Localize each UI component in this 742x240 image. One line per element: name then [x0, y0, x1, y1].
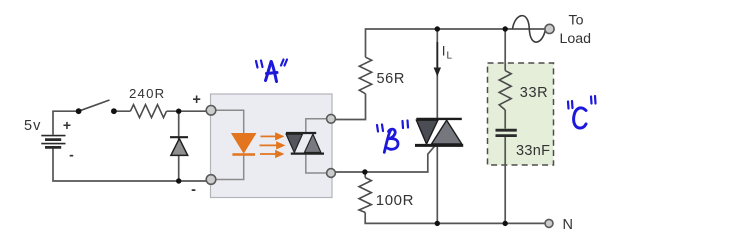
- svg-text:+: +: [63, 117, 71, 133]
- svg-text:240R: 240R: [129, 86, 165, 101]
- svg-text:33R: 33R: [520, 85, 548, 101]
- svg-text:-: -: [191, 182, 196, 198]
- svg-text:56R: 56R: [377, 71, 405, 87]
- svg-text:I: I: [442, 44, 446, 59]
- svg-text:100R: 100R: [376, 192, 414, 209]
- svg-text:Load: Load: [560, 31, 592, 47]
- svg-text:+: +: [192, 92, 200, 108]
- svg-text:33nF: 33nF: [516, 143, 550, 159]
- svg-text:N: N: [563, 217, 573, 233]
- svg-text:-: -: [69, 147, 74, 163]
- svg-text:L: L: [447, 51, 453, 62]
- svg-text:To: To: [569, 13, 584, 29]
- svg-text:5v: 5v: [24, 118, 41, 134]
